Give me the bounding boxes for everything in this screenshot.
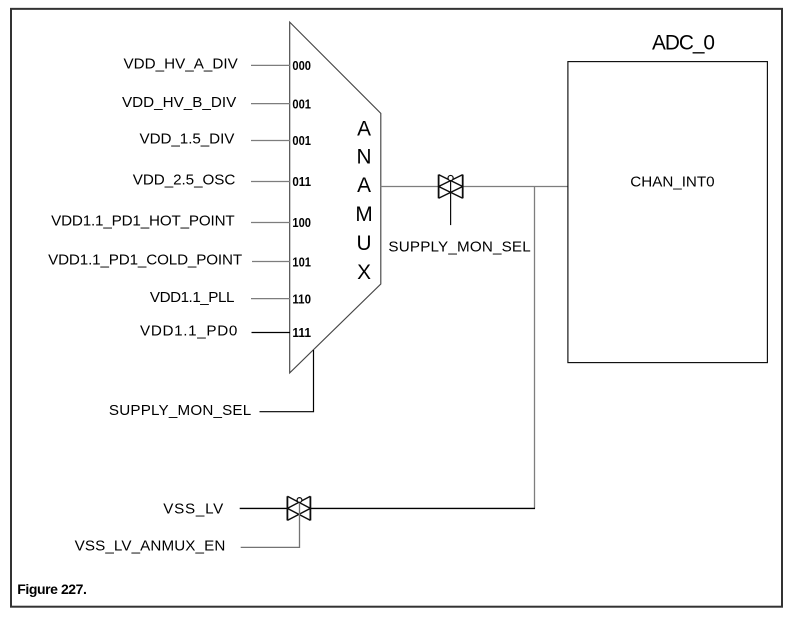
svg-text:Figure 227.: Figure 227.: [17, 581, 87, 597]
svg-text:SUPPLY_MON_SEL: SUPPLY_MON_SEL: [109, 402, 251, 419]
svg-text:101: 101: [292, 254, 311, 269]
svg-text:VDD1.1_PD1_HOT_POINT: VDD1.1_PD1_HOT_POINT: [51, 213, 235, 230]
analog switch S1 (SUPPLY_MON_SEL pass gate): [439, 175, 463, 199]
wire VDD1.1_PLL stub: [251, 298, 290, 300]
wire VDD1.1_PD0 stub (black): [252, 332, 291, 334]
switch S2 control wire to VSS_LV_ANMUX_EN: [241, 502, 300, 547]
wire switch S1 to ADC input: [463, 186, 568, 188]
svg-text:000: 000: [292, 58, 311, 73]
wire VDD_2.5_OSC stub: [251, 181, 290, 183]
svg-text:VDD_HV_A_DIV: VDD_HV_A_DIV: [124, 55, 239, 72]
wire junction drop (to VSS switch): [534, 187, 536, 509]
wire SUPPLY_MON_SEL to mux select pin: [260, 350, 314, 412]
wire VDD1.1_PD1_COLD_POINT stub: [252, 261, 290, 263]
svg-text:U: U: [356, 232, 371, 255]
svg-text:VDD1.1_PLL: VDD1.1_PLL: [150, 289, 235, 306]
svg-text:011: 011: [292, 174, 311, 189]
svg-text:001: 001: [292, 96, 311, 111]
svg-text:M: M: [355, 203, 372, 226]
wire VSS_LV to switch S2: [240, 507, 288, 509]
wire VDD_1.5_DIV stub: [251, 140, 290, 142]
svg-text:VDD_1.5_DIV: VDD_1.5_DIV: [140, 131, 236, 148]
svg-text:111: 111: [292, 325, 311, 340]
wire VDD_HV_B_DIV stub: [251, 103, 290, 105]
svg-text:VSS_LV_ANMUX_EN: VSS_LV_ANMUX_EN: [75, 537, 226, 554]
wire mux output to switch S1: [381, 186, 439, 188]
ADC block ADC_0: [568, 62, 768, 363]
switch S1 control line: [450, 181, 452, 226]
svg-text:VSS_LV: VSS_LV: [163, 500, 224, 517]
switch S1 bubble: [448, 175, 453, 180]
svg-text:VDD_2.5_OSC: VDD_2.5_OSC: [133, 172, 236, 189]
svg-text:100: 100: [292, 215, 311, 230]
ANAMUX vertical title: [355, 118, 372, 284]
analog mux U1 ANAMUX body: [290, 22, 381, 373]
svg-text:110: 110: [292, 291, 311, 306]
analog switch S2 (VSS_LV pass gate): [287, 496, 310, 520]
svg-text:VDD1.1_PD1_COLD_POINT: VDD1.1_PD1_COLD_POINT: [48, 252, 242, 269]
svg-text:VDD_HV_B_DIV: VDD_HV_B_DIV: [122, 94, 237, 111]
wire VSS_LV from switch S2 to junction: [310, 507, 535, 509]
wire VDD1.1_PD1_HOT_POINT stub: [251, 222, 290, 224]
svg-text:VDD1.1_PD0: VDD1.1_PD0: [140, 323, 237, 340]
svg-text:ADC_0: ADC_0: [652, 32, 715, 55]
svg-text:SUPPLY_MON_SEL: SUPPLY_MON_SEL: [388, 238, 530, 255]
svg-text:X: X: [357, 261, 371, 284]
switch S2 bubble: [297, 498, 302, 503]
wire VDD_HV_A_DIV stub: [251, 64, 290, 66]
svg-text:N: N: [356, 145, 371, 168]
svg-text:A: A: [357, 118, 371, 141]
svg-text:001: 001: [292, 133, 311, 148]
svg-text:CHAN_INT0: CHAN_INT0: [630, 174, 714, 191]
svg-text:A: A: [357, 174, 371, 197]
